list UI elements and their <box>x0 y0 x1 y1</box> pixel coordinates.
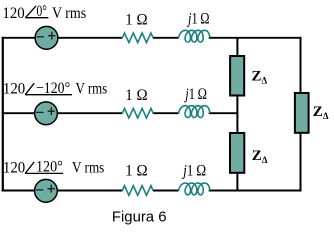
svg-text:−120°: −120° <box>36 80 70 97</box>
svg-text:ZΔ: ZΔ <box>252 68 268 85</box>
svg-text:1 Ω: 1 Ω <box>125 162 148 179</box>
source V1 (120∠0° V rms) <box>35 26 58 49</box>
svg-text:120°: 120° <box>36 159 63 176</box>
svg-text:120: 120 <box>2 5 24 22</box>
svg-text:V rms: V rms <box>72 159 104 176</box>
load impedance ZΔ1 (between rows 1-2) <box>230 56 244 96</box>
svg-text:1 Ω: 1 Ω <box>125 12 148 29</box>
label V2 value 120∠−120° V rms <box>3 80 107 98</box>
source V2 (120∠−120° V rms) <box>35 102 58 125</box>
svg-text:ZΔ: ZΔ <box>313 104 329 121</box>
wire left vertical bus <box>2 37 4 192</box>
source V3 (120∠120° V rms) <box>35 179 58 202</box>
svg-text:j1 Ω: j1 Ω <box>186 11 209 28</box>
svg-text:j1 Ω: j1 Ω <box>181 162 206 179</box>
resistor R3 1Ω (row 3) <box>122 186 153 196</box>
wire row 1 (phase a) segments <box>2 37 302 39</box>
svg-text:ZΔ: ZΔ <box>252 148 268 165</box>
svg-text:V rms: V rms <box>76 81 108 98</box>
svg-text:120: 120 <box>3 81 25 98</box>
inductor L1 j1Ω (row 1) <box>179 30 210 42</box>
svg-text:120: 120 <box>3 159 25 176</box>
inductor L2 j1Ω (row 2) <box>179 106 210 118</box>
resistor R1 1Ω (row 1) <box>122 33 153 43</box>
wire right vertical (x=300) <box>300 37 302 192</box>
load impedance ZΔ3 (right branch) <box>295 93 309 133</box>
svg-text:j1 Ω: j1 Ω <box>184 86 207 103</box>
svg-text:0°: 0° <box>37 3 47 20</box>
resistor R2 1Ω (row 2) <box>122 108 153 118</box>
wire row 2 (phase b) segments <box>2 112 239 114</box>
load impedance ZΔ2 (between rows 2-3) <box>230 133 244 173</box>
svg-text:V rms: V rms <box>52 5 86 22</box>
wire row 3 (phase c) segments <box>2 190 302 192</box>
label V1 value 120∠0° V rms <box>2 3 86 22</box>
label V3 value 120∠120° V rms <box>3 159 104 177</box>
wire middle vertical (x=237) <box>236 38 238 191</box>
svg-text:Figura 6: Figura 6 <box>112 208 167 225</box>
inductor L3 j1Ω (row 3) <box>179 183 210 195</box>
svg-text:1 Ω: 1 Ω <box>125 87 148 104</box>
